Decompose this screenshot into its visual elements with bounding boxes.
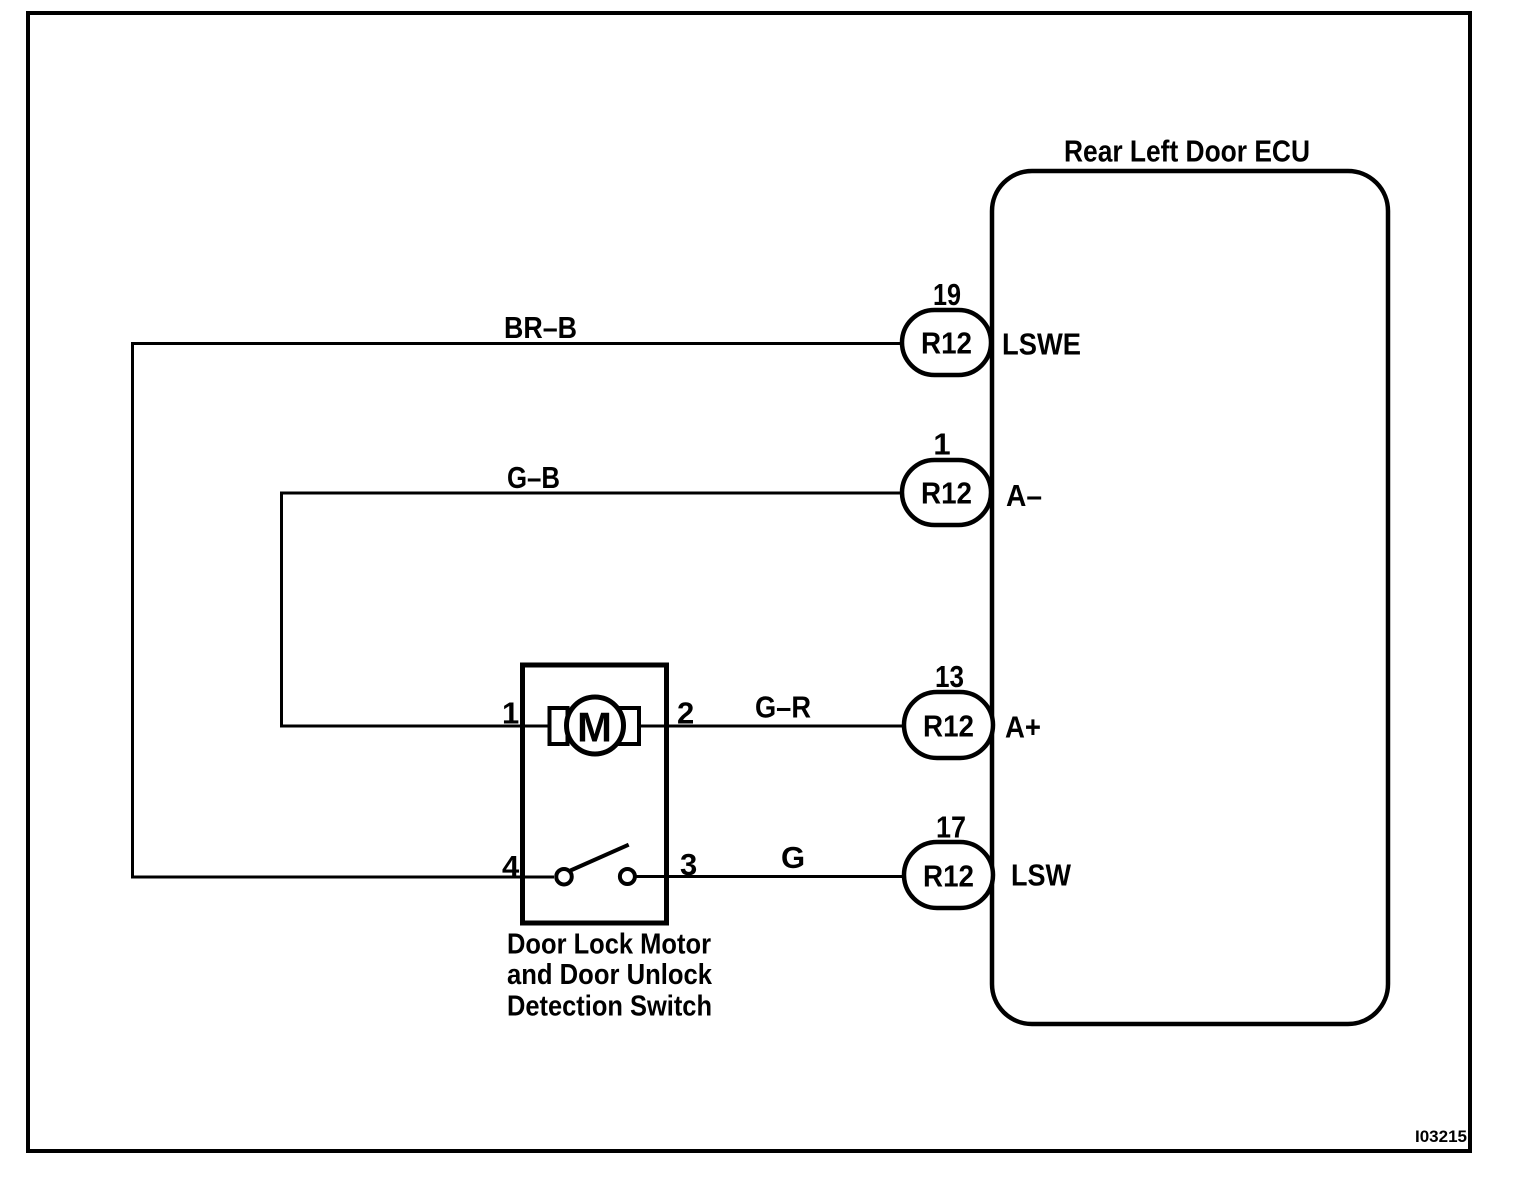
svg-text:I03215: I03215 [1415,1128,1467,1146]
svg-text:2: 2 [677,696,694,731]
svg-text:LSW: LSW [1011,858,1072,893]
motor brush right [619,708,639,744]
connector oval R12 pin 17 [904,842,993,908]
svg-text:19: 19 [933,277,961,312]
svg-text:4: 4 [502,849,520,884]
door lock motor assembly box [523,665,667,923]
svg-text:Door Lock Motor: Door Lock Motor [507,928,711,960]
svg-text:3: 3 [680,847,697,882]
svg-text:1: 1 [502,696,519,731]
switch contact right [620,869,635,884]
connector oval R12 pin 13 [904,692,993,758]
wire G-R net [640,725,905,728]
ECU U1 box [992,171,1388,1024]
svg-text:and Door Unlock: and Door Unlock [507,959,713,991]
svg-text:R12: R12 [921,326,972,361]
svg-text:R12: R12 [923,709,974,744]
svg-text:A+: A+ [1005,710,1041,745]
svg-text:1: 1 [933,427,950,462]
svg-text:R12: R12 [921,476,972,511]
svg-text:LSWE: LSWE [1002,327,1081,362]
connector oval R12 pin 1 [902,460,991,525]
svg-text:G: G [781,840,805,875]
svg-text:13: 13 [935,659,964,694]
svg-text:Rear Left Door ECU: Rear Left Door ECU [1064,134,1310,169]
svg-text:17: 17 [936,810,966,845]
wire BR-B net [133,344,903,878]
svg-text:G–R: G–R [755,690,811,725]
wire G net [636,875,904,878]
svg-text:G–B: G–B [507,460,560,495]
connector oval R12 pin 19 [902,310,991,375]
motor brush left [550,708,568,744]
svg-text:BR–B: BR–B [504,310,577,345]
svg-text:Detection Switch: Detection Switch [507,991,712,1023]
svg-text:R12: R12 [923,859,974,894]
motor M1 circle [567,697,624,754]
svg-text:A–: A– [1006,478,1042,513]
wire G-B net [282,493,903,726]
svg-text:M: M [577,704,612,751]
switch contact left [556,869,572,885]
switch SW1 lever [571,845,629,871]
